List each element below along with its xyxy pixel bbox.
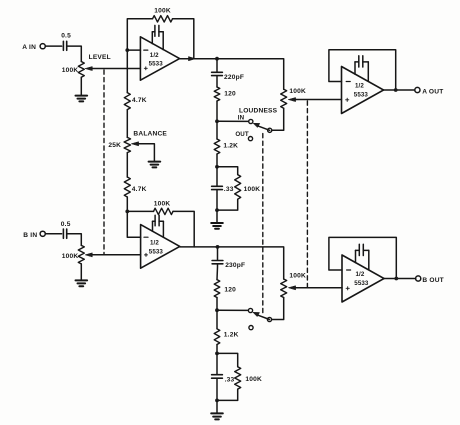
svg-text:100K: 100K (154, 201, 171, 208)
op-amp U1a 1/2 5533 (140, 37, 179, 80)
svg-text:1/2: 1/2 (150, 52, 159, 59)
wire node to IN contact (B) (217, 309, 248, 311)
compensation capacitor U1b (155, 215, 159, 225)
wire common to loudness pot bottom (B) (272, 298, 284, 320)
wiper arrow LEVEL A (89, 68, 93, 70)
potentiometer LOUDNESS 100K (B) (281, 279, 287, 298)
svg-text:0.5: 0.5 (61, 33, 71, 40)
svg-text:120: 120 (224, 287, 236, 294)
switch common contact (A) (268, 128, 272, 132)
ground (B filter) (211, 413, 223, 419)
minus mark U2b (347, 269, 351, 271)
compensation capacitor U2b (359, 244, 363, 255)
capacitor C 0.5 (B) (63, 229, 66, 238)
minus mark U2a (346, 81, 350, 83)
svg-text:5533: 5533 (354, 280, 369, 287)
feedback loop U2a (329, 50, 396, 90)
feedback resistor 100K (B) (127, 210, 153, 212)
dashed gang line loudness pots A-B (306, 101, 308, 288)
capacitor C 0.5 (A) (63, 41, 66, 50)
terminal A IN (40, 44, 45, 49)
resistor 120 (A) (216, 76, 218, 87)
resistor 120 (B) (216, 264, 219, 280)
resistor 4.7K (lower) (126, 153, 128, 177)
ground (B level pot) (76, 280, 88, 286)
switch common contact (B) (267, 317, 271, 321)
switch contact OUT (A) (248, 137, 252, 141)
svg-text:OUT: OUT (235, 131, 248, 138)
ground (A filter) (211, 223, 223, 229)
dashed gang line LEVEL A-B (103, 70, 105, 255)
potentiometer LEVEL 100K (A) (78, 62, 84, 78)
op-amp U2a 1/2 5533 (342, 67, 384, 114)
wire loudness B wiper to op-amp U2b + input (296, 287, 342, 289)
svg-text:B IN: B IN (23, 232, 37, 239)
wiper arrow LEVEL B (89, 254, 93, 256)
wire B IN to C2 (45, 233, 61, 235)
terminal B OUT (416, 276, 421, 281)
svg-text:1/2: 1/2 (355, 83, 364, 90)
svg-text:100K: 100K (62, 253, 79, 260)
svg-text:4.7K: 4.7K (132, 186, 147, 193)
wire U2a output (384, 89, 415, 91)
resistor 100K shunt (B) (217, 353, 238, 366)
wire level pot B to ground (80, 264, 82, 280)
feedback resistor 100K (A) (127, 19, 152, 50)
capacitor 230pF (B) (217, 247, 219, 260)
resistor 100K shunt (A) (217, 167, 238, 175)
svg-text:5533: 5533 (149, 61, 164, 68)
compensation capacitor U1a (155, 25, 159, 36)
svg-text:IN: IN (238, 115, 245, 122)
svg-text:100K: 100K (244, 186, 261, 193)
wire 1.2K to node (216, 154, 218, 167)
resistor 4.7K (upper) (126, 50, 128, 93)
svg-text:LEVEL: LEVEL (89, 54, 111, 61)
potentiometer LOUDNESS 100K (A) (281, 89, 287, 108)
wire balance wiper to ground (139, 144, 155, 162)
wire 120 to node (216, 101, 218, 121)
wire level pot B wiper to op-amp U1b + input (93, 254, 141, 256)
svg-text:LOUDNESS: LOUDNESS (239, 107, 278, 114)
wire loudness A wiper to op-amp U2a + input (296, 99, 342, 101)
svg-text:.33: .33 (225, 376, 235, 383)
switch arm (A) (258, 126, 270, 130)
svg-text:1.2K: 1.2K (224, 332, 239, 339)
wiper arrow loudness B (292, 287, 296, 289)
wire level pot A wiper to op-amp U1a + input (93, 68, 141, 70)
svg-text:220pF: 220pF (224, 74, 244, 81)
node B feedback junction (125, 210, 129, 214)
node U1a inverting input (125, 48, 129, 52)
wire U1b output (180, 246, 218, 248)
plus mark U1b (145, 253, 148, 256)
svg-text:1/2: 1/2 (150, 240, 159, 247)
wire C1 to level pot A (67, 46, 82, 61)
svg-text:100K: 100K (245, 376, 262, 383)
node U2a output (394, 88, 398, 92)
wire node to IN contact (A) (217, 120, 249, 122)
wire 1.2K to node (B) (216, 345, 218, 354)
svg-text:5533: 5533 (149, 248, 164, 255)
node A output / 220pF tap (215, 57, 219, 61)
capacitor 220pF (A) (216, 59, 218, 72)
node U2b output (394, 277, 398, 281)
minus mark U1b (144, 236, 148, 238)
svg-text:1/2: 1/2 (356, 271, 365, 278)
wiper arrow loudness A (292, 99, 296, 101)
op-amp U2b 1/2 5533 (342, 255, 384, 302)
node switch IN tap (A) (215, 119, 219, 123)
svg-text:100K: 100K (154, 8, 171, 15)
wire A output node to loudness pot A (217, 59, 284, 89)
plus mark U2a (346, 98, 349, 101)
resistor 1.2K (B) (216, 310, 218, 329)
svg-text:A OUT: A OUT (422, 88, 443, 95)
wire U2b output (384, 278, 416, 280)
potentiometer LEVEL 100K (B) (78, 245, 84, 264)
svg-text:25K: 25K (108, 142, 121, 149)
wire inverting input U1a (127, 49, 140, 51)
svg-text:B OUT: B OUT (422, 277, 444, 284)
svg-text:1.2K: 1.2K (223, 142, 238, 149)
terminal A OUT (415, 87, 420, 92)
switch arm (B) (258, 315, 270, 319)
svg-text:120: 120 (224, 90, 236, 97)
terminal B IN (40, 231, 45, 236)
svg-text:100K: 100K (289, 273, 306, 280)
svg-text:BALANCE: BALANCE (133, 130, 167, 137)
wire C2 to level pot B (67, 234, 82, 246)
switch contact IN (B) (248, 308, 252, 312)
wire B output node to loudness pot B (218, 247, 284, 279)
capacitor .33 (A) (216, 167, 218, 186)
svg-text:100K: 100K (289, 88, 306, 95)
wire A IN to C1 (45, 45, 61, 47)
capacitor .33 (B) (216, 353, 218, 374)
wire to U1b inverting input (127, 211, 140, 237)
wire level pot A to ground (80, 77, 82, 95)
wire 4.7K to balance pot (126, 110, 128, 138)
minus mark U1a (144, 49, 148, 51)
wire common to loudness pot bottom (A) (272, 108, 284, 130)
op-amp U1b 1/2 5533 (141, 225, 180, 269)
dashed gang line switch A-B (262, 134, 264, 316)
node parallel RC top (A) (215, 165, 219, 169)
switch contact OUT (B) (249, 326, 253, 330)
plus mark U2b (346, 287, 349, 290)
node parallel RC bottom (B) (215, 399, 219, 403)
feedback loop U2b (329, 237, 396, 278)
svg-text:.33: .33 (224, 186, 234, 193)
wire to ground (B filter) (216, 400, 218, 413)
ground (A level pot) (76, 96, 88, 102)
svg-text:230pF: 230pF (225, 262, 245, 269)
wire to ground (A filter) (216, 210, 218, 223)
wire 120 to node (B) (216, 298, 218, 311)
potentiometer BALANCE 25K (124, 137, 130, 152)
svg-text:100K: 100K (62, 67, 79, 74)
node B output / 230pF tap (216, 245, 220, 249)
svg-text:4.7K: 4.7K (132, 97, 147, 104)
compensation capacitor U2a (359, 56, 363, 67)
switch contact IN (A) (249, 119, 253, 123)
node parallel RC bottom (A) (215, 208, 219, 212)
wiper arrow BALANCE (135, 143, 139, 145)
plus mark U1a (144, 67, 147, 70)
arrowhead on U1a output (189, 57, 196, 61)
wire U1a output (180, 58, 217, 60)
svg-text:5533: 5533 (354, 92, 369, 99)
wire 4.7K lower to node B fb (126, 197, 128, 211)
svg-text:0.5: 0.5 (61, 221, 71, 228)
svg-text:A IN: A IN (22, 44, 36, 51)
node switch IN tap (B) (215, 308, 219, 312)
resistor 1.2K (A) (216, 121, 218, 139)
ground (balance) (149, 162, 161, 168)
node parallel RC top (B) (215, 352, 219, 356)
